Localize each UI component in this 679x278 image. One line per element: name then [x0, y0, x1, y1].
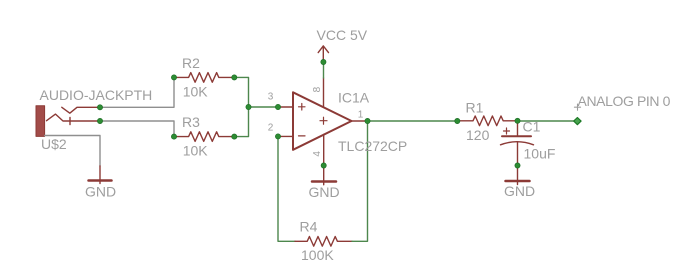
wire jack sleeve ground stub: [99, 166, 101, 184]
wire VCC to pin 8: [323, 62, 325, 78]
capacitor C1 plus marker: [504, 128, 510, 134]
svg-text:C1: C1: [523, 119, 541, 135]
svg-text:10uF: 10uF: [524, 146, 556, 162]
junction dot pin 2: [275, 134, 280, 139]
wire op-amp output to R1: [368, 120, 458, 122]
svg-text:GND: GND: [504, 183, 535, 199]
svg-text:R4: R4: [300, 219, 318, 235]
junction dot jack tip: [97, 105, 102, 110]
junction dot R1 left: [455, 118, 460, 123]
label origin cross ANALOG PIN 0: [574, 104, 580, 110]
wire jack tip to R2 (gray net): [100, 77, 174, 107]
svg-text:120: 120: [466, 127, 490, 143]
svg-text:U$2: U$2: [41, 136, 67, 152]
junction dot R2 left: [171, 75, 176, 80]
wire feedback from pin 2 down to R4: [278, 136, 295, 241]
op-amp minus input marker: [299, 135, 306, 137]
svg-text:4: 4: [312, 151, 323, 157]
junction dot C1 gnd: [515, 163, 520, 168]
net end diamond ANALOG PIN 0: [574, 118, 581, 125]
junction dot R2 right: [232, 75, 237, 80]
junction dot R3 right: [232, 134, 237, 139]
resistor R1: [457, 116, 517, 126]
capacitor C1 curved plate: [501, 142, 534, 145]
op-amp IC1A pin 2 stub: [278, 135, 293, 137]
op-amp IC1A triangle: [293, 92, 352, 150]
op-amp pin 1 output stub: [352, 120, 368, 122]
audio jack tip contact: [62, 107, 100, 113]
junction dot pin 4 gnd: [321, 163, 326, 168]
svg-text:ANALOG PIN 0: ANALOG PIN 0: [578, 93, 671, 109]
junction dot R3 left: [171, 134, 176, 139]
svg-text:R2: R2: [182, 55, 200, 71]
op-amp IC1A pin 3 stub: [278, 106, 293, 108]
junction dot R1 right C1: [515, 118, 520, 123]
audio jack U$2 body: [36, 106, 45, 137]
wire R2 out to summing node: [234, 77, 248, 136]
resistor R3: [174, 132, 234, 142]
VCC 5V supply symbol: [318, 46, 328, 62]
svg-text:8: 8: [312, 86, 323, 92]
svg-text:2: 2: [268, 122, 274, 133]
resistor R4: [295, 237, 352, 247]
op-amp pin 4 stub: [323, 135, 325, 166]
svg-text:R3: R3: [182, 114, 200, 130]
svg-text:1: 1: [358, 109, 364, 120]
wire R1 to analog pin: [518, 120, 578, 122]
ground symbol under C1: [506, 180, 530, 183]
svg-text:GND: GND: [85, 184, 116, 200]
wire pin 4 to ground stub: [323, 166, 325, 185]
junction dot summing node: [246, 104, 251, 109]
ground symbol under jack: [89, 179, 112, 182]
svg-text:IC1A: IC1A: [338, 89, 370, 105]
op-amp pin 8 stub: [323, 78, 325, 107]
wire jack sleeve to ground (gray): [45, 136, 100, 167]
svg-text:AUDIO-JACKPTH: AUDIO-JACKPTH: [40, 87, 153, 103]
junction dot output: [365, 118, 370, 123]
svg-text:TLC272CP: TLC272CP: [338, 138, 407, 154]
junction dot VCC: [321, 59, 326, 64]
audio jack ring contact: [47, 114, 101, 125]
capacitor C1 top plate: [502, 135, 531, 137]
resistor R2: [174, 73, 234, 83]
wire jack ring to R3 (gray net): [100, 121, 174, 137]
junction dot pin 3: [275, 104, 280, 109]
svg-text:10K: 10K: [183, 143, 209, 159]
op-amp plus input marker: [299, 104, 306, 111]
svg-text:3: 3: [268, 92, 274, 103]
ground symbol under op-amp: [312, 180, 336, 183]
junction dot jack ring: [97, 118, 102, 123]
capacitor C1 bottom lead: [517, 142, 519, 185]
wire summing node to op-amp pin 3: [249, 106, 279, 108]
op-amp center plus marker: [320, 117, 327, 124]
svg-text:GND: GND: [309, 184, 340, 200]
svg-text:100K: 100K: [301, 247, 334, 263]
svg-text:VCC 5V: VCC 5V: [317, 27, 368, 43]
capacitor C1 top lead: [517, 121, 519, 135]
svg-text:10K: 10K: [183, 83, 209, 99]
svg-text:R1: R1: [466, 99, 484, 115]
wire R4 to output: [352, 121, 368, 241]
